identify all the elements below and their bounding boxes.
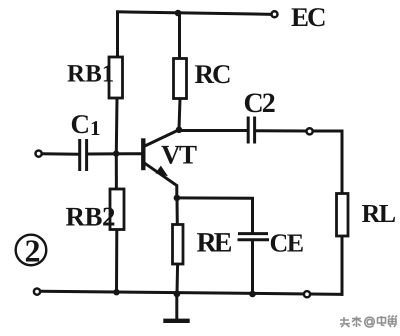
svg-text:RC: RC [195, 59, 231, 89]
svg-text:EC: EC [291, 2, 325, 32]
svg-text:C1: C1 [71, 109, 101, 140]
svg-text:C2: C2 [244, 88, 275, 119]
svg-text:RL: RL [361, 199, 395, 228]
svg-text:RB1: RB1 [67, 60, 114, 87]
svg-text:RE: RE [196, 227, 231, 258]
svg-text:CE: CE [269, 229, 303, 258]
svg-text:2: 2 [24, 232, 40, 268]
svg-text:VT: VT [161, 139, 197, 169]
svg-text:RB2: RB2 [65, 201, 115, 231]
